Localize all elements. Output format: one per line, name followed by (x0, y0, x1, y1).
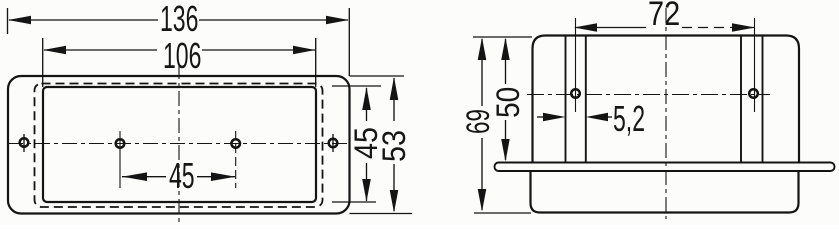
svg-text:50: 50 (491, 87, 526, 118)
svg-text:72: 72 (648, 0, 680, 33)
svg-text:45: 45 (169, 157, 195, 196)
svg-text:136: 136 (160, 0, 198, 39)
svg-text:106: 106 (163, 37, 201, 76)
svg-text:53: 53 (377, 130, 413, 162)
svg-text:5,2: 5,2 (613, 100, 645, 139)
svg-text:69: 69 (460, 109, 496, 134)
